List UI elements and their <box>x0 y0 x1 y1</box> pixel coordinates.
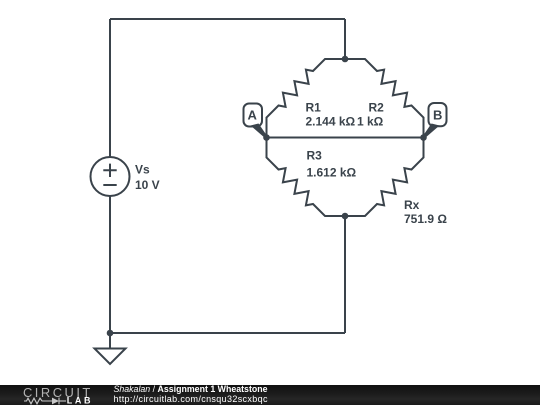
junction dot ground corner <box>107 330 114 337</box>
svg-text:LAB: LAB <box>67 395 93 405</box>
junction dot node A vertex <box>263 134 270 141</box>
wire left vertical lower <box>109 196 111 333</box>
svg-text:1.612 kΩ: 1.612 kΩ <box>307 166 357 180</box>
svg-text:R2: R2 <box>369 101 385 115</box>
resistor R3 <box>267 138 346 217</box>
node A leader wedge <box>251 124 268 139</box>
node B leader wedge <box>423 124 440 139</box>
wire node A to node B horizontal <box>267 137 424 139</box>
svg-text:10 V: 10 V <box>135 178 160 192</box>
wire top right vertical <box>344 19 346 59</box>
wire left vertical upper <box>109 19 111 157</box>
svg-text:R3: R3 <box>307 149 323 163</box>
wire bottom horizontal <box>110 332 345 334</box>
wire top horizontal <box>110 18 345 20</box>
svg-text:751.9 Ω: 751.9 Ω <box>404 212 447 226</box>
wire bottom right vertical <box>344 216 346 333</box>
voltage source plus sign <box>103 164 116 177</box>
logo resistor-diode glyph <box>24 397 66 404</box>
svg-text:Vs: Vs <box>135 163 150 177</box>
svg-text:1 kΩ: 1 kΩ <box>357 115 384 129</box>
CircuitLab logo <box>0 385 110 405</box>
ground symbol <box>95 349 126 365</box>
voltage source minus sign <box>103 184 116 186</box>
logo diode triangle <box>52 397 59 404</box>
ground stub wire <box>109 333 111 349</box>
svg-text:Rx: Rx <box>404 198 420 212</box>
resistor R1 <box>267 59 346 138</box>
junction dot bottom vertex <box>342 213 349 220</box>
node A box <box>244 104 263 127</box>
footer line 1 <box>114 385 514 394</box>
node B box <box>429 103 447 126</box>
footer black bar <box>0 385 540 405</box>
voltage source Vs circle <box>91 157 130 196</box>
svg-text:B: B <box>433 108 442 123</box>
svg-text:A: A <box>248 108 258 123</box>
junction dot node B vertex <box>420 134 427 141</box>
svg-text:R1: R1 <box>306 101 322 115</box>
resistor R2 <box>345 59 424 138</box>
footer line 2 <box>114 395 514 404</box>
svg-text:2.144 kΩ: 2.144 kΩ <box>306 115 356 129</box>
resistor Rx <box>345 138 424 217</box>
junction dot top vertex <box>342 56 349 63</box>
